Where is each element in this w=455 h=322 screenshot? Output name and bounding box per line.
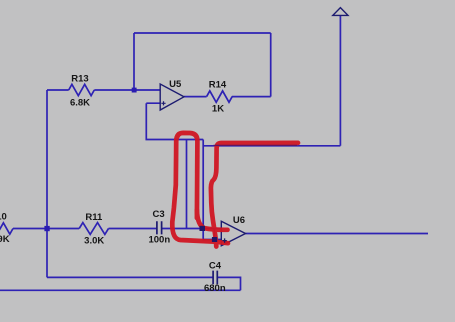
- svg-text:R13: R13: [71, 74, 88, 85]
- svg-text:9K: 9K: [0, 234, 10, 245]
- svg-text:R14: R14: [209, 79, 227, 90]
- svg-text:1K: 1K: [212, 103, 224, 114]
- svg-text:6.8K: 6.8K: [70, 98, 90, 109]
- svg-text:U6: U6: [233, 215, 245, 226]
- svg-text:C4: C4: [209, 261, 222, 272]
- svg-text:680n: 680n: [204, 283, 226, 294]
- svg-text:100n: 100n: [148, 235, 170, 246]
- svg-text:U5: U5: [169, 79, 182, 90]
- svg-text:10: 10: [0, 212, 7, 223]
- svg-text:3.0K: 3.0K: [84, 235, 104, 246]
- svg-text:C3: C3: [153, 209, 165, 220]
- svg-text:R11: R11: [85, 212, 103, 223]
